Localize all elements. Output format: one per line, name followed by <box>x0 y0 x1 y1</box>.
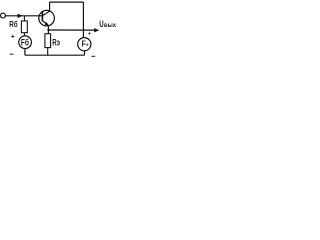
transistor Q1 body <box>39 10 55 26</box>
emitter output wire <box>48 29 94 31</box>
bottom rail <box>25 54 85 56</box>
output arrowhead <box>94 28 99 32</box>
wire R6 top lead <box>23 16 25 21</box>
resistor R7 <box>45 34 51 48</box>
top rail <box>50 1 84 3</box>
transistor emitter <box>43 21 49 34</box>
wire R7 to rail <box>47 48 49 56</box>
plus sign F6 <box>11 35 14 38</box>
svg-text:F: F <box>82 39 86 48</box>
battery F6 <box>19 36 32 49</box>
minus sign F7 <box>91 55 95 57</box>
battery F7 <box>78 38 91 51</box>
wire top rail down to F7 <box>82 2 84 38</box>
resistor R6 <box>21 21 27 33</box>
junction dot emitter tee <box>47 29 49 31</box>
input terminal <box>1 13 6 18</box>
plus sign F7 <box>88 32 90 34</box>
svg-text:Fб: Fб <box>21 37 29 47</box>
svg-text:Rэ: Rэ <box>52 38 60 48</box>
minus sign F6 <box>10 53 14 55</box>
wire R6 to F6 <box>23 33 25 36</box>
wire input to base <box>5 15 42 17</box>
transistor base bar <box>41 11 43 21</box>
wire F7 to rail <box>84 51 86 55</box>
svg-text:вых: вых <box>104 22 116 29</box>
svg-text:Rб: Rб <box>9 19 17 29</box>
emitter arrowhead <box>45 22 49 26</box>
wire F6 to rail <box>24 49 26 56</box>
input signal arrowhead <box>18 14 23 18</box>
transistor collector <box>43 2 50 16</box>
